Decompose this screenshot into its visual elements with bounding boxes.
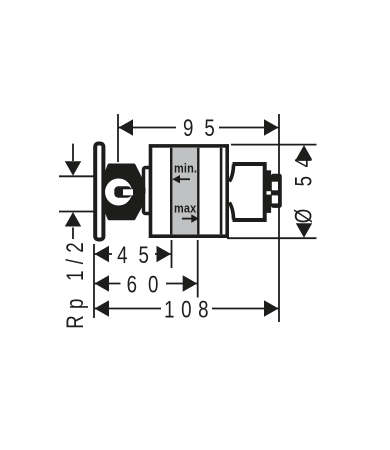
valve body: [151, 146, 228, 236]
nut slot notch: [123, 189, 133, 195]
arrow dim108 left: [95, 300, 110, 316]
svg-text:108: 108: [164, 296, 215, 323]
temperature scale band (grey): [171, 148, 198, 235]
wire extension line top of body (dia 54 top): [231, 144, 317, 146]
spindle end knob: [271, 174, 282, 208]
band edge line right: [197, 148, 199, 235]
label max.: [174, 200, 200, 215]
bracket between nut and body: [144, 168, 151, 214]
svg-text:60: 60: [127, 271, 170, 298]
body inner line: [220, 148, 223, 235]
wire left small dim top line: [59, 175, 95, 177]
svg-text:45: 45: [117, 242, 160, 269]
arrow dia54 down: [296, 223, 312, 238]
arrow dim60 right: [183, 275, 198, 291]
step collar: [267, 170, 272, 213]
neck (cartridge housing): [233, 164, 265, 220]
svg-text:95: 95: [183, 115, 226, 142]
svg-text:min.: min.: [174, 160, 197, 175]
wire dim line 108: [94, 308, 279, 310]
wire leader stem below: [72, 228, 74, 240]
label min.: [174, 160, 197, 175]
max arrow line: [182, 218, 192, 220]
arrow left-dim up: [65, 212, 81, 227]
svg-text:max.: max.: [174, 200, 200, 215]
knob window top: [272, 182, 278, 191]
wire left small dim bottom line: [59, 211, 95, 213]
min arrow line: [178, 178, 190, 180]
min arrow head: [172, 175, 180, 183]
wire dim line 45: [94, 253, 172, 255]
wire extension line x=197.7 (dim 60 right): [197, 240, 199, 299]
svg-text:Ø 54: Ø 54: [290, 148, 317, 223]
arrow left-dim down: [65, 161, 81, 176]
arrow dia54 up: [296, 145, 312, 160]
label dia 54 (rotated): [290, 148, 317, 223]
wall plate: [95, 144, 103, 240]
label 60: [127, 271, 170, 298]
wire leader stem above: [72, 144, 74, 161]
nut bore: [105, 179, 132, 206]
arrow dim95 left: [119, 119, 134, 135]
valve nut (octagon): [103, 165, 141, 219]
label 45: [117, 242, 160, 269]
wire extension line x=171.5 (dim 45 right): [171, 240, 173, 268]
band edge line left: [170, 148, 172, 235]
label Rp 1/2 (rotated): [62, 236, 89, 329]
wire extension line bottom of body (dia 54 bottom): [227, 237, 317, 239]
max arrow head: [191, 214, 199, 222]
arrow dim108 right: [264, 300, 279, 316]
wire extension line x=118 (dim 95 left): [117, 114, 119, 162]
label 95: [183, 115, 226, 142]
neck fillet top: [229, 165, 233, 182]
arrow dim95 right: [264, 119, 279, 135]
dimension texts: [62, 115, 317, 329]
arrow dim45 left: [95, 246, 110, 262]
knob window bottom: [272, 195, 278, 203]
wire dim line 60: [94, 283, 198, 285]
arrowheads: [65, 119, 312, 316]
text backgrounds: [112, 116, 219, 320]
wire extension line x=94 (wall plane, bottom dims left): [93, 244, 95, 318]
neck fillet bottom: [229, 203, 233, 220]
nut slot: [114, 186, 131, 197]
svg-text:Rp 1/2: Rp 1/2: [62, 236, 89, 329]
arrow dim60 left: [95, 275, 110, 291]
wire extension line x=279 (dim 95/108 right): [278, 114, 280, 322]
label 108: [164, 296, 215, 323]
bracket nub: [141, 188, 146, 194]
arrow dim45 right: [157, 246, 172, 262]
step collar slit: [267, 191, 272, 194]
wire dim line 95: [118, 127, 279, 129]
